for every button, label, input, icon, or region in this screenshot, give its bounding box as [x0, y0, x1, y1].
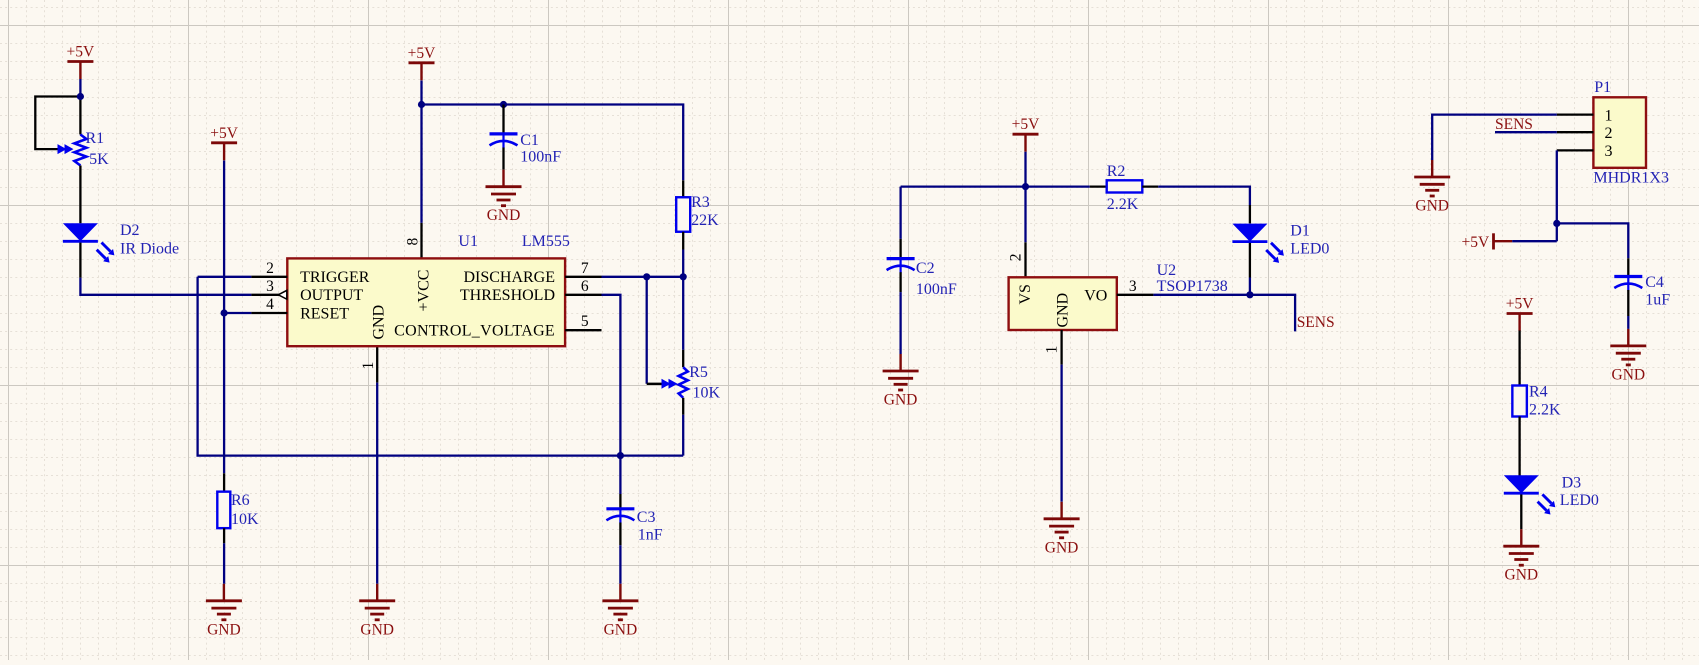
svg-text:3: 3: [1605, 143, 1613, 160]
svg-text:TSOP1738: TSOP1738: [1157, 278, 1228, 295]
svg-text:2: 2: [1605, 125, 1613, 142]
svg-text:100nF: 100nF: [916, 281, 957, 298]
svg-text:GND: GND: [1505, 567, 1539, 584]
svg-text:D1: D1: [1290, 223, 1310, 240]
svg-text:SENS: SENS: [1495, 116, 1533, 133]
svg-text:TRIGGER: TRIGGER: [300, 269, 370, 286]
svg-text:GND: GND: [371, 305, 388, 340]
svg-text:6: 6: [581, 278, 589, 295]
svg-text:THRESHOLD: THRESHOLD: [460, 287, 555, 304]
svg-text:OUTPUT: OUTPUT: [300, 287, 363, 304]
svg-text:GND: GND: [884, 392, 918, 409]
svg-text:7: 7: [581, 260, 589, 277]
svg-text:10K: 10K: [231, 511, 259, 528]
svg-text:C1: C1: [520, 132, 539, 149]
svg-text:C4: C4: [1645, 274, 1664, 291]
svg-text:R4: R4: [1529, 384, 1548, 401]
svg-text:2: 2: [1008, 253, 1025, 261]
svg-text:GND: GND: [1045, 539, 1079, 556]
svg-text:1: 1: [1043, 346, 1060, 354]
svg-text:GND: GND: [360, 621, 394, 638]
svg-text:5K: 5K: [89, 151, 109, 168]
svg-text:C2: C2: [916, 260, 935, 277]
svg-text:5: 5: [581, 313, 589, 330]
svg-text:U1: U1: [458, 233, 478, 250]
svg-text:+5V: +5V: [1506, 296, 1534, 313]
svg-text:GND: GND: [207, 621, 241, 638]
svg-text:GND: GND: [1415, 198, 1449, 215]
svg-text:RESET: RESET: [300, 305, 349, 322]
svg-text:1uF: 1uF: [1645, 292, 1670, 309]
svg-text:R6: R6: [231, 492, 250, 509]
svg-text:2.2K: 2.2K: [1529, 402, 1561, 419]
svg-text:4: 4: [266, 296, 274, 313]
svg-text:DISCHARGE: DISCHARGE: [463, 269, 555, 286]
svg-text:VS: VS: [1017, 284, 1034, 304]
svg-text:LED0: LED0: [1560, 492, 1599, 509]
svg-text:+5V: +5V: [1012, 116, 1040, 133]
svg-text:1: 1: [360, 362, 377, 370]
svg-text:+5V: +5V: [408, 45, 436, 62]
svg-text:IR Diode: IR Diode: [120, 240, 179, 257]
svg-text:2.2K: 2.2K: [1107, 196, 1139, 213]
svg-text:P1: P1: [1594, 79, 1611, 96]
svg-text:R2: R2: [1107, 163, 1126, 180]
svg-text:GND: GND: [1612, 366, 1646, 383]
svg-text:VO: VO: [1084, 287, 1107, 304]
svg-text:U2: U2: [1157, 262, 1177, 279]
svg-text:3: 3: [1129, 278, 1137, 295]
svg-text:+VCC: +VCC: [416, 270, 433, 312]
svg-text:8: 8: [405, 238, 422, 246]
svg-text:R3: R3: [691, 194, 710, 211]
svg-text:CONTROL_VOLTAGE: CONTROL_VOLTAGE: [394, 323, 555, 340]
svg-text:GND: GND: [487, 207, 521, 224]
svg-text:3: 3: [266, 278, 274, 295]
svg-text:+5V: +5V: [210, 125, 238, 142]
svg-text:10K: 10K: [693, 384, 721, 401]
svg-text:LED0: LED0: [1290, 241, 1329, 258]
svg-text:LM555: LM555: [522, 233, 570, 250]
svg-text:100nF: 100nF: [520, 149, 561, 166]
svg-text:2: 2: [266, 260, 274, 277]
svg-text:SENS: SENS: [1297, 314, 1335, 331]
svg-text:R5: R5: [689, 364, 708, 381]
svg-text:R1: R1: [86, 130, 105, 147]
svg-text:GND: GND: [604, 621, 638, 638]
svg-text:1nF: 1nF: [638, 527, 663, 544]
svg-text:MHDR1X3: MHDR1X3: [1593, 170, 1669, 187]
svg-text:+5V: +5V: [67, 44, 95, 61]
svg-text:D2: D2: [120, 222, 140, 239]
svg-text:C3: C3: [637, 509, 656, 526]
svg-text:22K: 22K: [691, 212, 719, 229]
svg-text:+5V: +5V: [1462, 234, 1490, 251]
svg-text:1: 1: [1605, 107, 1613, 124]
svg-text:D3: D3: [1562, 475, 1582, 492]
svg-text:GND: GND: [1054, 293, 1071, 328]
